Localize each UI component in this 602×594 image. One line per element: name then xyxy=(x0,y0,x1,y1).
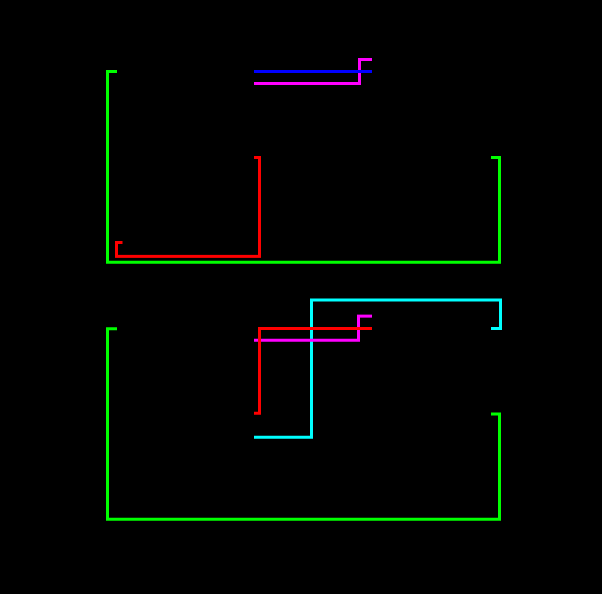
wire: green channel boundary bracket, bottom panel xyxy=(108,329,500,520)
wire: red net, top panel xyxy=(117,158,260,257)
wire: cyan net, bottom panel xyxy=(254,300,501,437)
wire: red net, bottom panel xyxy=(254,329,372,414)
wire: green channel boundary bracket, top panel xyxy=(108,72,500,263)
wire: blue net, top panel xyxy=(254,70,372,73)
wire: magenta net, top panel xyxy=(254,60,372,84)
wire: magenta net, bottom panel xyxy=(254,316,372,340)
